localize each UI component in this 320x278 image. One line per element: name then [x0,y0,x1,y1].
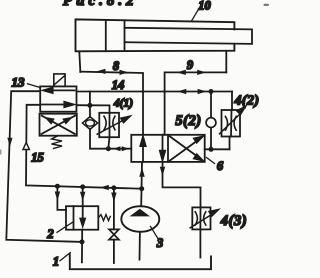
leader for 3 [151,227,159,240]
wire stub to shutoff valve [113,188,115,229]
svg-text:13: 13 [12,74,26,89]
valve 13 upper position box [40,86,76,111]
valve 6 right cell X arrow 2 [170,136,203,160]
wire from line 8 corner down to valve 6 [142,92,144,135]
relief valve 2 spring [99,215,111,221]
wire from line 14 down to node A [89,92,91,106]
node manifold stub 2 [80,184,85,189]
svg-text:9: 9 [187,58,194,72]
svg-text:Рис.8.2: Рис.8.2 [63,0,138,9]
throttle 4(1) flow line [108,113,109,149]
svg-text:2: 2 [46,227,53,241]
wire pump suction to tank [139,232,141,260]
wire cylinder right port down [225,51,227,73]
node manifold stub 1 [55,184,60,189]
valve 13 flow path arrow right [42,102,74,107]
svg-text:5(2): 5(2) [175,113,201,129]
leader for 6 [207,158,215,164]
arrow left on valve 6 left port [113,146,120,151]
node at throttle 4(1) bottom [106,146,111,151]
check valve ball [86,120,95,126]
wire to valve 6 left port [108,148,131,150]
valve 13 flow path arrow left [43,88,74,93]
wire stub to relief valve 2 left [57,186,66,210]
node A junction [87,103,92,108]
arrow down on stub 3 [111,193,116,203]
shutoff valve bowtie [109,229,119,239]
valve 6 body [131,135,204,162]
svg-text:15: 15 [31,151,44,165]
piston line left [105,20,107,51]
wire line 9 horizontal [165,72,227,91]
wire check valve down [90,129,108,149]
wire 4(3) to tank [199,229,201,257]
arrow right on line 14 [198,89,207,94]
throttle 4(3) flow line [199,207,201,229]
wire shutoff valve to tank [113,240,115,263]
wire line 14 horizontal [77,91,233,93]
valve 6 left cell down arrow [160,135,165,160]
arrow right on valve 6 left port [122,146,129,151]
throttle 4(3) arcs [195,212,206,225]
wire 4(2) bottom to junction [205,148,230,150]
valve 6 left cell up arrow [140,137,145,162]
relief valve 2 body [66,206,98,230]
arrow up on pump line [139,167,144,177]
node manifold stub 3 [111,185,116,190]
throttle 4(3) adjust arrow [190,210,218,228]
tank 1 [70,254,211,269]
leader for 10 [192,3,203,22]
svg-text:6: 6 [217,159,224,173]
wire block 13 to node A [77,104,90,106]
throttle 4(2) adjust arrow [220,107,246,134]
wire relief valve 2 drain [81,230,83,263]
wire 5(2) to junction [210,128,212,150]
relief valve 2 arrow [80,206,85,226]
wire second bus from valve 13 [26,105,142,189]
wire left bus from valve 13 [6,91,82,242]
svg-text:1: 1 [53,255,59,269]
pump 3 triangle [130,209,150,217]
throttle 4(1) arcs [104,116,115,130]
check valve 5(2) ball [206,118,216,128]
svg-text:8: 8 [113,59,120,73]
spring under valve 13 [52,136,63,149]
wire node A to throttle 4(1) top [90,105,110,113]
svg-text:4(1): 4(1) [113,98,133,110]
arrow left on line 9 [177,70,186,75]
piston rod [125,28,253,44]
node drain and bus junction [80,239,85,244]
arrow down on left bus [7,138,12,147]
throttle 4(2) box [222,110,241,137]
leader for 1 [60,253,70,261]
leader for 2 [57,222,73,232]
check valve 5(1) diamond [82,117,97,130]
throttle 4(2) flow line [230,110,232,149]
arrow down on stub 1 [55,192,60,202]
svg-text:14: 14 [112,78,125,92]
valve 13 lower position box with X [40,114,77,136]
svg-text:4(2): 4(2) [234,94,260,109]
wire cylinder left port down [79,51,80,72]
scan dash top right [264,4,270,6]
wire valve 6 to pump [140,162,143,206]
X diagonal with arrow up-left [42,116,75,134]
piston line right [124,20,126,51]
relief valve 2 inner line [73,206,75,230]
node pump line crosses manifold [139,186,144,191]
svg-text:4(3): 4(3) [220,213,248,229]
arrow left on line 14 [177,89,186,94]
arrow right on line 9 [197,70,206,75]
arrow left on manifold [100,185,109,190]
pump 3 body [121,206,159,232]
hollow arrow up on second bus [23,143,29,150]
node on line 14 above check 5(2) [209,89,214,94]
wire line 8 horizontal [80,72,143,92]
throttle 4(3) box [192,207,210,229]
valve 13 solenoid box [54,74,65,86]
X diagonal with arrow up-right [42,116,76,134]
arrow right on line 8 [120,70,129,75]
wire node A down to check valve [89,105,91,117]
arrow down on return line [160,167,165,177]
arrow down on stub 2 [80,192,85,202]
wire stub to relief valve 2 top [82,187,84,206]
valve 6 right cell X arrow 1 [170,137,203,161]
throttle 4(2) arcs [225,116,236,130]
scan speck left edge [0,150,2,155]
arrow left on line 8 [97,69,106,74]
wire from line 9 corner down to valve 6 [164,92,166,135]
wire line 14 corner down to throttle 4(2) [231,92,233,111]
wire valve 6 return to 4(3) [163,162,201,208]
cylinder U10 body [76,19,235,51]
solenoid diagonal [54,76,65,85]
throttle 4(1) box [99,113,119,137]
node junction right of valve 6 [209,147,214,152]
valve 6 divider [167,135,169,162]
check valve 5(2) line down [210,92,212,118]
throttle 4(1) adjust arrow [97,116,130,134]
leader for 13 [28,84,41,88]
